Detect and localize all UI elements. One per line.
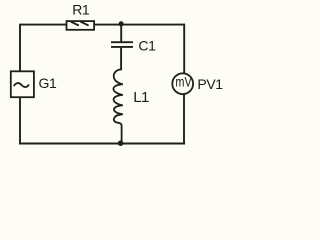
svg-text:mV: mV (175, 74, 192, 90)
generator G1 box (11, 71, 34, 97)
wire top-left horizontal (node between G1 and R1) (20, 24, 67, 26)
wire C1 top stub (120, 24, 122, 41)
capacitor C1 bottom plate (111, 46, 133, 48)
node junction dot bottom (L1 branch) (118, 140, 124, 146)
svg-text:L1: L1 (133, 89, 149, 106)
wire C1 bottom stub to L1 (120, 48, 122, 70)
svg-text:R1: R1 (72, 2, 90, 18)
R1 slash 1 (71, 22, 79, 26)
wire left vertical lower (G1 bottom to bottom rail) (19, 97, 21, 144)
inductor L1 (four loops with exit curl) (113, 69, 122, 143)
svg-text:G1: G1 (39, 75, 57, 91)
wire top rail right of R1 (through C1 node to right corner) (94, 24, 185, 26)
wire right vertical upper (top rail to PV1 top) (183, 24, 185, 74)
resistor R1 box (67, 21, 95, 30)
svg-text:C1: C1 (138, 38, 156, 54)
wire right vertical lower (PV1 bottom to bottom rail) (183, 94, 185, 144)
wire bottom rail (19, 143, 185, 145)
millivoltmeter PV1 circle (172, 73, 193, 94)
R1 slash 2 (81, 22, 89, 26)
capacitor C1 top plate (111, 41, 133, 43)
svg-text:PV1: PV1 (197, 76, 223, 92)
wire left vertical upper (top rail to G1 top) (19, 24, 21, 72)
node junction dot top (C1 branch) (119, 21, 124, 26)
G1 sine symbol (14, 83, 29, 87)
